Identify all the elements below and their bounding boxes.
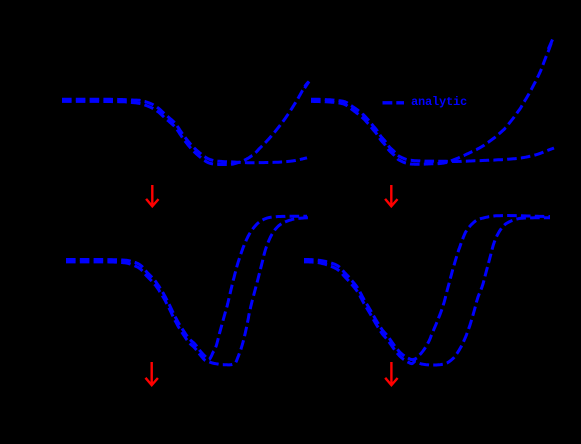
svg-text:analytic: analytic <box>411 95 467 109</box>
